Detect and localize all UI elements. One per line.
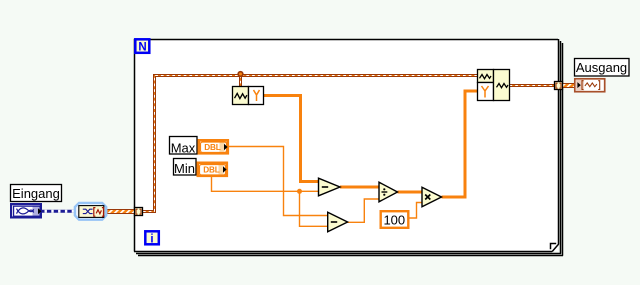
loop frame shadow lines	[136, 41, 563, 256]
wire: thin orange Max to subtract2 top	[229, 147, 328, 216]
divide function	[379, 182, 398, 202]
Max DBL terminal	[199, 140, 228, 153]
multiply function	[422, 187, 442, 207]
svg-text:i: i	[150, 233, 153, 245]
wire: waveform dashed Build node to right tunnel	[510, 84, 555, 87]
svg-text:Min: Min	[174, 161, 195, 176]
right tunnel	[555, 82, 563, 90]
loop count N box	[135, 39, 149, 53]
svg-text:DBL: DBL	[204, 143, 221, 152]
svg-text:Eingang: Eingang	[12, 186, 60, 201]
convert from dynamic data express VI	[75, 203, 106, 220]
Build Waveform node	[478, 70, 510, 101]
left tunnel	[135, 208, 143, 216]
wire: thick orange Y array to subtract1	[264, 96, 319, 182]
wire: waveform (brown dashed) tunnel up and across top	[143, 76, 477, 212]
wire: thin orange 100 to multiply bottom	[410, 203, 423, 219]
wire: waveform dashed branch down to Get Y node	[239, 75, 242, 86]
Ausgang terminal (waveform indicator)	[575, 79, 605, 92]
wire: dynamic data (navy dashed) Eingang to convert	[41, 210, 76, 213]
svg-text:DBL: DBL	[203, 166, 220, 175]
wire: thin orange branch junction down to subtract2 bottom	[300, 191, 328, 226]
numeric constant 100	[381, 211, 409, 228]
wire: thick orange divide to multiply	[398, 191, 423, 194]
junction dot on Min wire	[297, 189, 302, 194]
Ausgang label	[575, 59, 630, 77]
Min DBL terminal	[198, 163, 227, 176]
svg-text:Max: Max	[171, 140, 196, 155]
Max label	[170, 137, 198, 156]
Min label	[174, 159, 197, 177]
subtract function 2	[328, 212, 348, 232]
Eingang terminal (dynamic data control)	[10, 203, 42, 219]
svg-text:Ausgang: Ausgang	[576, 60, 627, 75]
wire: thick orange subtract1 to divide	[340, 186, 379, 189]
svg-text:100: 100	[383, 212, 405, 227]
Eingang label	[11, 185, 62, 202]
junction on waveform wire	[237, 71, 243, 77]
subtract function 1	[319, 178, 341, 196]
svg-text:N: N	[138, 42, 146, 54]
loop frame (page with folded corner)	[134, 39, 559, 252]
Get Waveform Components node (Y)	[233, 87, 264, 105]
wire: waveform array (rope) convert to left tunnel	[106, 209, 135, 214]
wire: waveform array (rope) right tunnel to Ausgang	[561, 83, 575, 88]
wire: thin orange Min down and to subtract1 bottom	[212, 177, 319, 191]
wire: thin orange subtract2 out to divide bottom	[348, 199, 380, 222]
wire: thick orange multiply up to Build node	[442, 91, 478, 197]
loop iterator i box	[145, 231, 159, 245]
